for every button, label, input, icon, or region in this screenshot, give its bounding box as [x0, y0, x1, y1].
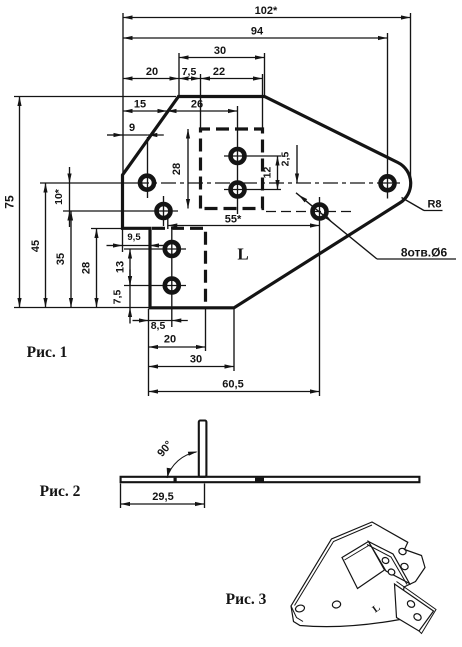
extension line corner B x=264.5 — [264, 53, 266, 96]
svg-text:10*: 10* — [53, 188, 65, 205]
Fig.2 ext line right — [204, 484, 206, 509]
svg-text:R8: R8 — [427, 199, 441, 211]
extension line flange right x=262.5 — [262, 74, 264, 129]
dimension 20 bottom — [149, 334, 206, 350]
part outline Fig.1 — [123, 97, 411, 308]
dimension 30 bottom — [149, 354, 235, 369]
Fig.2 ext line left — [120, 484, 122, 509]
dimension 29,5 — [121, 491, 205, 506]
svg-text:Рис. 2: Рис. 2 — [40, 483, 81, 500]
centerline hole column x=237.5 — [237, 106, 239, 214]
svg-text:29,5: 29,5 — [152, 491, 173, 503]
hole 3 flange (237.5,156) — [231, 149, 245, 163]
svg-text:L: L — [237, 245, 248, 264]
dimension 102* — [123, 5, 411, 20]
dimension 20 top — [123, 66, 179, 81]
svg-text:22: 22 — [213, 66, 225, 78]
upper flange fold rectangle (dashed) — [201, 129, 263, 209]
hole 5 right vertex (387.5,183) — [381, 176, 395, 190]
extension line x=234 below — [233, 309, 235, 371]
extension line x=122.5 below step — [122, 228, 124, 252]
dimension 9 — [107, 122, 164, 137]
dimension 2,5 — [280, 145, 300, 183]
svg-text:Рис. 3: Рис. 3 — [226, 591, 267, 608]
dimension 45 — [30, 183, 48, 308]
svg-text:9,5: 9,5 — [127, 232, 141, 243]
svg-text:13: 13 — [115, 261, 127, 273]
extension line bottom-left x=148.5 — [148, 309, 150, 396]
hole 6 (319.5,211.5) — [313, 205, 327, 219]
hole1 vertical cross — [147, 137, 149, 198]
extension line 102 right x=410.5 — [410, 13, 412, 183]
extension line flange left x=200.5 — [200, 74, 202, 129]
leader 8 holes dia 6 — [296, 193, 456, 260]
extension line left x=123 — [122, 13, 124, 175]
lower flange fold lines (dashed) — [152, 228, 206, 307]
Fig.3 3D sketch of bracket — [291, 522, 436, 634]
extension line hole row y=156 — [224, 155, 281, 157]
dimension 12 — [262, 156, 280, 190]
svg-text:26: 26 — [191, 99, 203, 111]
extension line hole row y=189.5 — [224, 189, 281, 191]
svg-text:12: 12 — [262, 167, 274, 179]
centerline lower holes x=171.8 — [171, 230, 173, 327]
svg-text:Рис. 1: Рис. 1 — [27, 344, 68, 361]
dimension 55* — [168, 214, 320, 228]
svg-text:15: 15 — [134, 99, 146, 111]
svg-text:7,5: 7,5 — [112, 290, 124, 305]
dimension 28 left — [81, 229, 99, 308]
svg-text:8,5: 8,5 — [151, 320, 166, 332]
extension line corner A x=179 — [178, 53, 180, 96]
extension line 94 / hole vertical x=387.5 — [387, 33, 389, 199]
centerline y=183 dash-dot — [134, 182, 404, 184]
hole 8 lower flange (171.8,285.5) — [165, 279, 179, 293]
hole 1 (147,183) — [140, 176, 154, 190]
Fig.2 flat bar — [121, 477, 420, 482]
extension line 55 left x=167.8 — [167, 218, 169, 229]
svg-text:102*: 102* — [255, 5, 278, 17]
dimension 60,5 — [149, 379, 320, 394]
dimension 94 — [123, 26, 388, 41]
svg-text:2,5: 2,5 — [280, 152, 292, 167]
svg-text:20: 20 — [146, 66, 158, 78]
extension line y=183 left — [40, 182, 134, 184]
svg-text:75: 75 — [3, 195, 17, 209]
dimension 15 — [123, 99, 167, 114]
extension line hole6 vertical x=319.5 — [319, 197, 321, 396]
dimension 35 — [55, 211, 73, 308]
dimension 7,5 left — [112, 270, 133, 324]
Fig.2 bend mark 2 — [255, 478, 264, 482]
svg-text:94: 94 — [251, 26, 264, 38]
svg-text:30: 30 — [190, 354, 202, 366]
hole 7 lower flange (171.8,249) — [165, 242, 179, 256]
Fig.2 angle arc 90deg — [167, 452, 198, 479]
svg-text:8отв.Ø6: 8отв.Ø6 — [401, 246, 448, 260]
extension line hole row y=285.5 — [124, 285, 186, 287]
dimension 7,5 top — [179, 66, 201, 81]
dimension 26 — [167, 99, 238, 114]
extension line hole row y=249 — [124, 248, 186, 250]
extension line bottom y=307.5 — [14, 307, 149, 309]
hole 2 (163.5,211) — [157, 204, 171, 218]
leader R8 — [402, 198, 443, 211]
extension line x=205.5 below — [205, 309, 207, 351]
hole 4 flange (237.5,189.5) — [231, 183, 245, 197]
svg-text:28: 28 — [81, 262, 93, 274]
extension line y=228.5 left — [91, 228, 123, 230]
svg-text:55*: 55* — [225, 214, 242, 226]
dimension 9,5 — [107, 232, 166, 248]
dimension 10* — [53, 167, 72, 227]
dimension 8,5 — [133, 318, 188, 332]
dimension 30 top — [179, 45, 265, 60]
svg-text:60,5: 60,5 — [222, 379, 243, 391]
dimension 75 — [3, 97, 22, 308]
svg-text:9: 9 — [129, 122, 135, 134]
svg-text:35: 35 — [55, 253, 67, 265]
svg-text:20: 20 — [164, 334, 176, 346]
hole2 vertical cross — [163, 196, 165, 226]
dimension 13 — [115, 249, 133, 286]
extension line top edge y=96.5 — [14, 96, 176, 98]
svg-text:28: 28 — [171, 163, 183, 175]
Fig.2 vertical leg — [199, 421, 207, 477]
extension line y=211 left — [63, 210, 178, 212]
dimension 22 top — [201, 66, 263, 81]
svg-text:7,5: 7,5 — [182, 66, 197, 78]
Fig.2 bend mark 1 — [174, 478, 177, 482]
svg-text:30: 30 — [214, 45, 226, 57]
dimension 28 flange — [171, 129, 190, 209]
svg-text:45: 45 — [30, 240, 42, 252]
centerline y=211.5 dashed — [266, 211, 352, 213]
